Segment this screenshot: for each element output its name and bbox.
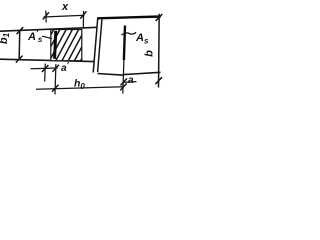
tick x right xyxy=(80,11,86,18)
tick b top xyxy=(156,14,163,21)
dimension h0 line xyxy=(36,87,124,90)
leader A's xyxy=(42,36,52,38)
joint step line S xyxy=(93,18,98,73)
tick b bottom xyxy=(155,77,162,84)
tick b1 bottom xyxy=(16,56,23,63)
tick x left xyxy=(43,12,49,19)
tick h0 left xyxy=(52,85,59,92)
svg-text:a: a xyxy=(128,75,134,86)
dimension x: extension left xyxy=(45,11,47,23)
tick a' left xyxy=(42,65,49,72)
dimension a' line xyxy=(31,67,58,70)
big rect top edge (thick) xyxy=(98,17,161,19)
leader As xyxy=(122,32,137,35)
wire: web top edge xyxy=(0,27,98,31)
wire: web bottom edge xyxy=(0,59,94,61)
tick h0 right xyxy=(120,83,127,90)
rebar As extension below xyxy=(123,60,124,94)
big rect bottom edge (left part) xyxy=(98,74,125,76)
extension V3 (A's bar, below web) xyxy=(54,64,57,95)
dimension a line (bottom right) xyxy=(124,81,137,84)
tick b1 top xyxy=(17,27,24,34)
tick a' right xyxy=(53,65,60,72)
node V1: web left face / b1 dimension line xyxy=(18,30,21,60)
rebar As (thick bar in big rect) xyxy=(124,26,125,61)
svg-text:b1: b1 xyxy=(0,32,11,44)
background xyxy=(0,0,169,103)
extension V2 (compressed face, below web) xyxy=(44,64,47,82)
dimension x: extension right xyxy=(82,11,84,28)
svg-text:b: b xyxy=(144,50,156,57)
big rect bottom edge (right part) xyxy=(124,72,161,74)
hatched compression block xyxy=(51,30,82,61)
tick a left xyxy=(121,78,128,85)
rebar A's (thick bar in hatch) xyxy=(55,31,56,59)
svg-text:x: x xyxy=(61,1,69,13)
big rect right face / b dimension line xyxy=(158,14,161,88)
big rect left face xyxy=(98,20,102,73)
dimension x: line xyxy=(44,15,85,17)
